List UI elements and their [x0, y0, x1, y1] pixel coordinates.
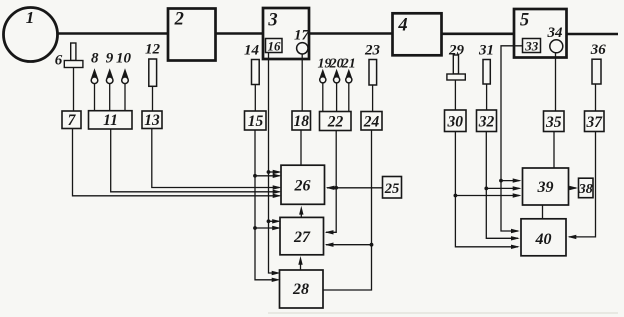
junction dot wire33 branch to box39	[499, 178, 521, 182]
junction dot wire15 branch to box26	[253, 174, 281, 178]
svg-text:6: 6	[55, 52, 63, 68]
shaft wire circle1 to box2	[56, 32, 169, 35]
sensor 36 resistor	[590, 42, 607, 84]
sensor candle 21	[341, 56, 356, 83]
svg-text:34: 34	[547, 25, 564, 41]
box 35	[544, 111, 565, 132]
wire box16 trunk to box28	[269, 53, 281, 275]
shaft wire box4 to box5	[440, 32, 515, 35]
junction dot wire15 branch to box27	[253, 226, 281, 230]
wire box39 to box38	[568, 186, 578, 190]
wire box35 to box39 top	[553, 132, 555, 169]
svg-text:10: 10	[116, 51, 132, 67]
wire sensor36 to box37	[595, 84, 597, 111]
machine circle 1	[4, 8, 58, 62]
wire box30 trunk to box40	[455, 132, 519, 250]
wire candle 10 to box11	[124, 84, 126, 111]
box 11	[89, 111, 133, 129]
box 30	[445, 110, 467, 132]
arrow 27 to 26	[299, 206, 303, 218]
box 26	[281, 165, 325, 204]
svg-text:7: 7	[68, 112, 77, 129]
box 4	[393, 13, 442, 55]
sensor candle 8	[91, 51, 99, 84]
wire box24 trunk to box28	[324, 130, 372, 290]
sensor 29 plug	[447, 42, 465, 80]
wire sensor6 to box7	[73, 68, 75, 112]
sensor candle 20	[329, 56, 344, 83]
box 39	[523, 168, 569, 205]
tachogenerator circle 17	[294, 27, 310, 54]
wire box13 to box26	[152, 129, 282, 190]
svg-text:35: 35	[545, 114, 562, 131]
box 3	[263, 8, 309, 59]
box 22	[320, 112, 352, 131]
wire candle 9 to box11	[109, 84, 111, 111]
svg-text:33: 33	[524, 38, 539, 53]
wire candle 21 to box22	[348, 83, 350, 112]
svg-text:13: 13	[144, 112, 160, 129]
wire circle34 to box35	[555, 53, 557, 111]
svg-text:24: 24	[363, 114, 380, 131]
wire candle 19 to box22	[322, 83, 324, 112]
svg-text:12: 12	[145, 41, 161, 57]
svg-text:36: 36	[590, 42, 607, 58]
sensor candle 10	[116, 51, 132, 84]
sensor 23 resistor	[364, 42, 381, 85]
wire sensor14 to box15	[254, 85, 256, 112]
box 25	[383, 177, 402, 199]
box 2	[168, 9, 216, 61]
svg-text:25: 25	[384, 181, 400, 197]
svg-text:37: 37	[585, 114, 603, 131]
shaft wire box2 to box3	[214, 32, 264, 35]
box 32	[477, 110, 497, 132]
junction dot wire16 branch to box26	[267, 170, 282, 174]
svg-text:5: 5	[520, 11, 529, 31]
box 24	[361, 112, 382, 131]
box 16 inside box 3	[266, 38, 283, 53]
wire link box39 to box40	[542, 205, 544, 219]
box 40	[521, 219, 566, 256]
svg-text:3: 3	[267, 11, 277, 31]
svg-text:1: 1	[26, 8, 35, 27]
box 15	[245, 111, 267, 130]
svg-text:17: 17	[294, 27, 310, 43]
faint scan rule bottom	[268, 312, 618, 314]
wire candle 8 to box11	[94, 84, 96, 111]
shaft wire box3 to box4	[308, 32, 394, 35]
svg-text:11: 11	[103, 112, 118, 129]
wire box18 to box26 top	[300, 130, 302, 165]
svg-text:2: 2	[174, 10, 184, 30]
svg-text:15: 15	[248, 113, 264, 130]
wire sensor29 to box30	[454, 80, 456, 110]
sensor candle 19	[318, 56, 332, 83]
junction dot wire24 branch to box27	[325, 243, 374, 247]
sensor 14 resistor	[244, 42, 260, 84]
wire box22 trunk to box27 with junction dot	[325, 131, 338, 235]
svg-text:32: 32	[478, 114, 495, 131]
box 27	[280, 217, 324, 254]
svg-text:22: 22	[327, 114, 344, 131]
wire box11 to box26	[111, 129, 282, 194]
box 28	[280, 270, 324, 308]
sensor 12 resistor	[145, 41, 161, 86]
arrow 28 to 27	[298, 256, 302, 270]
box 33 inside box 5	[523, 38, 541, 53]
svg-text:23: 23	[364, 42, 381, 58]
junction dot wire30 branch to box39	[454, 193, 522, 197]
sensor 6 plug	[55, 43, 83, 68]
svg-text:31: 31	[478, 42, 494, 58]
svg-text:16: 16	[268, 38, 282, 53]
wire sensor12 to box13	[152, 86, 154, 111]
sensor candle 9	[106, 51, 114, 84]
svg-text:21: 21	[341, 56, 356, 71]
sensor 31 resistor	[478, 42, 494, 84]
wire box7 to box26	[73, 129, 282, 199]
wire box33 trunk to box40	[501, 46, 523, 233]
box 18	[292, 111, 311, 130]
wire box32 trunk to box40	[486, 132, 520, 241]
box 37	[585, 111, 605, 132]
svg-text:4: 4	[397, 16, 407, 36]
svg-text:29: 29	[448, 42, 465, 58]
wire candle 20 to box22	[336, 83, 338, 112]
junction dot wire16 branch to box27	[267, 219, 281, 223]
shaft wire right of box5	[566, 33, 618, 36]
svg-text:18: 18	[293, 113, 309, 130]
svg-text:26: 26	[294, 178, 311, 195]
tachogenerator circle 34	[547, 25, 564, 53]
wire sensor23 to box24	[372, 85, 374, 112]
box 38	[578, 178, 593, 198]
svg-text:38: 38	[578, 182, 593, 197]
wire circle17 to box18	[301, 54, 303, 111]
svg-text:9: 9	[106, 51, 114, 67]
svg-text:40: 40	[535, 231, 552, 248]
wire box15 trunk to box28	[255, 130, 281, 282]
junction dot wire32 branch to box39	[484, 186, 521, 190]
box 5	[514, 9, 567, 58]
svg-text:14: 14	[244, 42, 260, 58]
box 13	[142, 111, 162, 129]
box 7	[62, 111, 81, 129]
svg-text:30: 30	[446, 114, 463, 131]
wire box25 to box26	[326, 186, 383, 190]
wire box37 to box40 right	[568, 132, 596, 240]
svg-text:8: 8	[91, 51, 99, 67]
svg-text:39: 39	[537, 179, 554, 196]
svg-text:28: 28	[292, 281, 309, 298]
wire sensor31 to box32	[486, 84, 488, 110]
svg-text:27: 27	[293, 229, 311, 246]
